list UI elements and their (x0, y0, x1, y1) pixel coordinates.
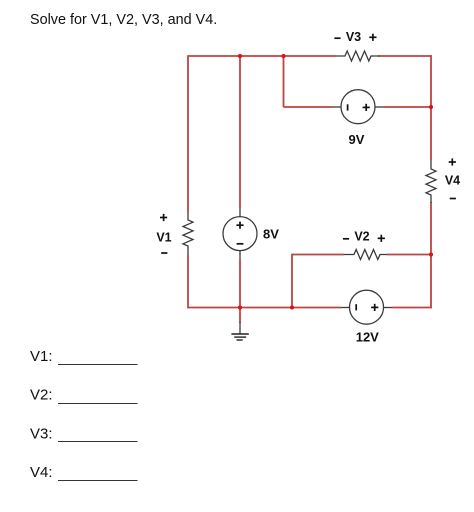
svg-text:8V: 8V (263, 227, 279, 242)
svg-text:V3:: V3: (30, 425, 53, 442)
svg-text:V4: V4 (445, 173, 460, 187)
answer row V3 (30, 425, 138, 442)
wire top horizontal right segment (378, 55, 432, 57)
label plus of V2 (378, 235, 385, 242)
answer row V1 (30, 348, 138, 365)
voltage source 8V (223, 208, 257, 259)
ground (231, 322, 248, 340)
svg-text:12V: 12V (356, 330, 379, 345)
voltage source 9V (333, 90, 385, 124)
answer row V2 (30, 387, 138, 404)
svg-text:V2:: V2: (30, 387, 53, 404)
junction node bottom wire at ground tap (238, 305, 242, 309)
svg-text:V3: V3 (346, 30, 361, 44)
label minus of V4 (450, 198, 456, 200)
wire ground tap red segment (239, 308, 241, 324)
wire bottom horizontal left segment (188, 307, 341, 309)
junction node V2 branch to right wire (429, 252, 433, 256)
wire V2 branch vertical drop (291, 254, 293, 308)
wire middle branch upper segment (239, 56, 241, 208)
svg-text:V1: V1 (156, 230, 171, 244)
resistor V1 (183, 212, 193, 255)
wire V2 branch horizontal right (387, 254, 431, 256)
wire 9V branch horizontal left (284, 106, 333, 108)
junction node bottom wire at V2 drop (290, 305, 294, 309)
svg-text:Solve for V1, V2, V3, and V4.: Solve for V1, V2, V3, and V4. (30, 12, 217, 28)
junction node on top wire at 9V branch (281, 54, 285, 58)
wire middle branch lower segment (239, 259, 241, 308)
junction node 9V branch to right wire (429, 105, 433, 109)
wire 9V branch horizontal right (385, 106, 432, 108)
wire bottom horizontal right segment (392, 307, 432, 309)
label plus of V1 (160, 214, 167, 221)
svg-text:V4:: V4: (30, 464, 53, 481)
label minus of V3 (334, 37, 340, 39)
label minus of V2 (343, 238, 349, 240)
junction node on top wire at middle branch (238, 54, 242, 58)
label plus of V4 (449, 158, 456, 165)
wire right vertical lower segment (430, 202, 432, 308)
resistor V2 (344, 250, 387, 260)
wire left vertical upper segment (187, 55, 189, 212)
wire 9V branch vertical (283, 56, 285, 107)
label plus of V3 (369, 34, 376, 41)
wire V2 branch horizontal left (292, 254, 344, 256)
resistor V3 (336, 51, 379, 61)
svg-text:V1:: V1: (30, 348, 53, 365)
svg-text:V2: V2 (354, 230, 369, 244)
voltage source 12V (341, 290, 392, 324)
resistor V4 (426, 160, 436, 203)
wire left vertical lower segment (187, 255, 189, 308)
wire right vertical upper segment (430, 55, 432, 160)
answer row V4 (30, 464, 138, 481)
wire top horizontal left segment (188, 55, 336, 57)
svg-text:9V: 9V (349, 132, 365, 147)
label minus of V1 (161, 252, 167, 254)
